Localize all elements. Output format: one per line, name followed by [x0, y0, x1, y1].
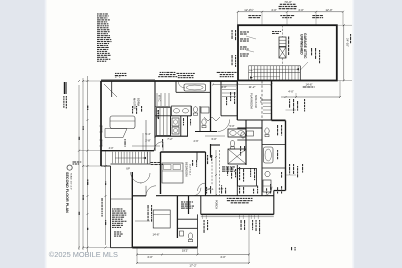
- svg-text:GARAGE ATTIC: GARAGE ATTIC: [303, 33, 307, 59]
- svg-text:4'-0”: 4'-0”: [288, 90, 294, 94]
- svg-text:24'-10”: 24'-10”: [346, 38, 350, 47]
- svg-text:ATTIC: ATTIC: [259, 97, 262, 104]
- svg-text:4'-0”: 4'-0”: [147, 255, 153, 259]
- svg-text:14'-6”: 14'-6”: [305, 83, 312, 87]
- svg-text:15-4 X 11-2: 15-4 X 11-2: [188, 164, 190, 176]
- svg-text:11'-2”: 11'-2”: [249, 85, 256, 89]
- svg-text:4'-0”: 4'-0”: [220, 255, 226, 259]
- svg-text:UP: UP: [126, 167, 130, 171]
- svg-text:5'-4”: 5'-4”: [145, 132, 151, 136]
- svg-text:3'-0”: 3'-0”: [211, 137, 217, 141]
- svg-text:BEDROOM: BEDROOM: [184, 162, 188, 177]
- svg-text:©2025 MOBILE MLS: ©2025 MOBILE MLS: [49, 250, 118, 259]
- svg-text:PORCH: PORCH: [215, 200, 218, 209]
- svg-text:74'-0”: 74'-0”: [284, 0, 292, 4]
- svg-text:DN: DN: [249, 70, 253, 72]
- svg-text:BDRM: BDRM: [137, 98, 141, 107]
- svg-text:17'-2”: 17'-2”: [189, 264, 196, 268]
- svg-text:17'-2”: 17'-2”: [115, 75, 122, 79]
- svg-text:12'-4½”: 12'-4½”: [244, 8, 253, 12]
- svg-text:2'-6”: 2'-6”: [193, 139, 198, 143]
- svg-text:4'-0”: 4'-0”: [271, 8, 277, 12]
- svg-text:12'-0”: 12'-0”: [325, 8, 332, 12]
- svg-text:PLAYROOM: PLAYROOM: [250, 93, 254, 109]
- svg-text:W.I.C.: W.I.C.: [158, 95, 162, 102]
- svg-text:14'-6”: 14'-6”: [152, 233, 159, 237]
- svg-text:5'-0”: 5'-0”: [229, 124, 234, 128]
- svg-text:4'-0”: 4'-0”: [298, 8, 304, 12]
- svg-text:SCALE: 1/4"=1'-0": SCALE: 1/4"=1'-0": [69, 173, 72, 190]
- svg-text:2'-8”: 2'-8”: [145, 139, 151, 143]
- svg-text:UNFINISHED: UNFINISHED: [299, 34, 303, 55]
- svg-text:4'-0”: 4'-0”: [109, 147, 114, 150]
- svg-text:SECOND FLOOR PLAN: SECOND FLOOR PLAN: [65, 172, 69, 213]
- svg-text:7'-2”: 7'-2”: [167, 137, 173, 141]
- svg-text:19'2”: 19'2”: [182, 249, 188, 253]
- svg-text:4'-0”: 4'-0”: [221, 85, 227, 89]
- svg-text:BONUS RM: BONUS RM: [254, 95, 257, 108]
